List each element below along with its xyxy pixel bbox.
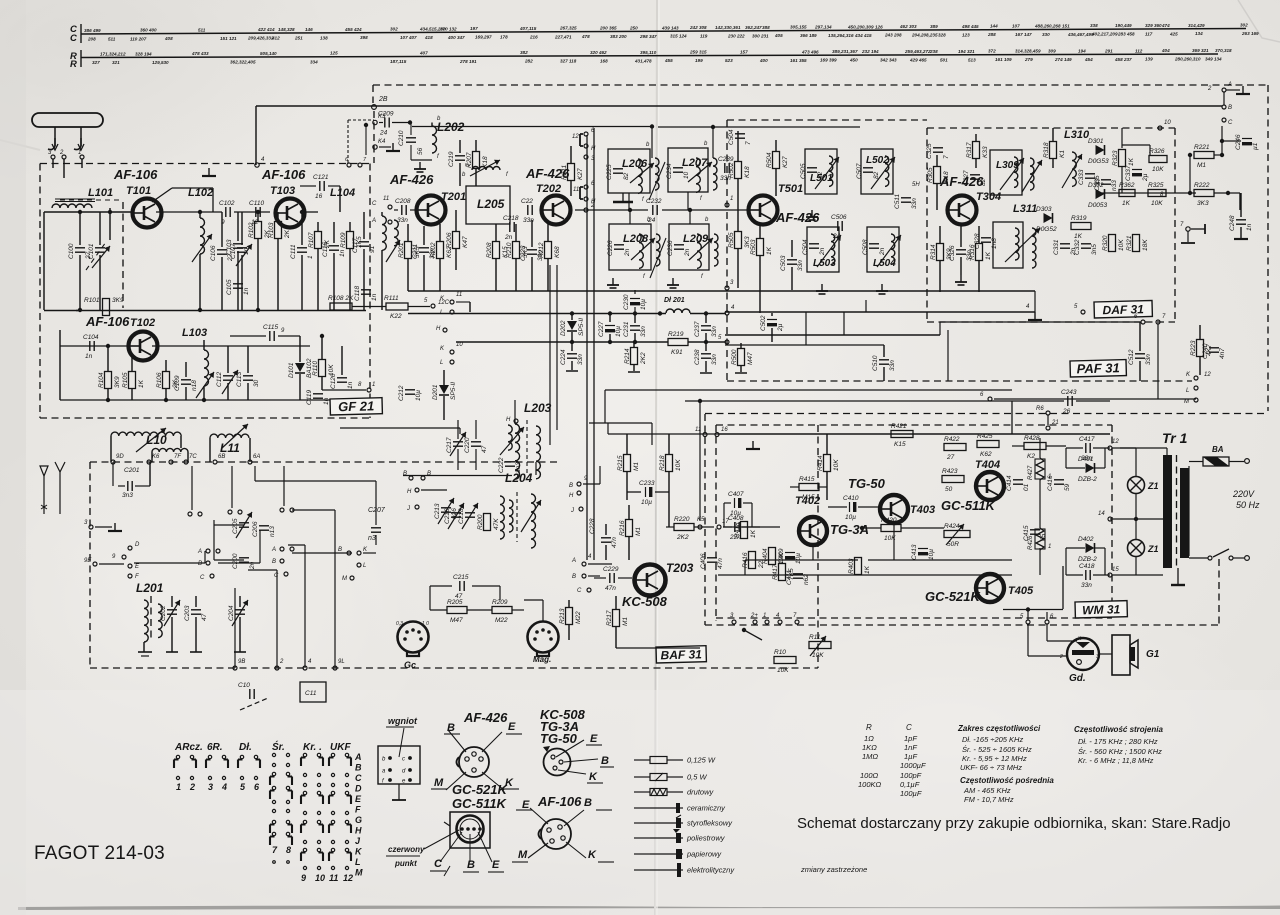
svg-text:Tr 1: Tr 1 bbox=[1162, 430, 1188, 446]
svg-text:C211: C211 bbox=[412, 244, 419, 259]
svg-text:R211: R211 bbox=[561, 165, 568, 180]
svg-text:TG-50: TG-50 bbox=[540, 731, 578, 746]
svg-text:R417: R417 bbox=[772, 564, 779, 580]
svg-text:1: 1 bbox=[307, 255, 314, 259]
svg-text:151 121: 151 121 bbox=[220, 36, 237, 41]
svg-text:362,247: 362,247 bbox=[745, 25, 762, 30]
svg-text:2: 2 bbox=[1207, 86, 1212, 92]
svg-text:n13: n13 bbox=[269, 526, 276, 537]
svg-text:L: L bbox=[1186, 388, 1189, 394]
svg-text:505,140: 505,140 bbox=[260, 51, 277, 56]
svg-text:SP5-II: SP5-II bbox=[450, 382, 457, 400]
svg-text:L309: L309 bbox=[996, 160, 1019, 171]
svg-text:B: B bbox=[584, 797, 592, 809]
svg-text:M1: M1 bbox=[1197, 162, 1206, 169]
svg-text:9E: 9E bbox=[84, 558, 92, 564]
svg-text:R415: R415 bbox=[799, 476, 815, 483]
svg-text:33n: 33n bbox=[397, 217, 408, 224]
svg-text:E: E bbox=[522, 799, 530, 811]
svg-text:6A: 6A bbox=[253, 454, 260, 460]
svg-text:7: 7 bbox=[465, 163, 472, 167]
svg-text:A: A bbox=[354, 752, 362, 762]
svg-text:C113: C113 bbox=[236, 372, 243, 387]
svg-text:R216: R216 bbox=[619, 520, 626, 536]
svg-text:9D: 9D bbox=[116, 454, 124, 460]
svg-text:1n8: 1n8 bbox=[991, 238, 998, 249]
svg-text:C: C bbox=[70, 33, 77, 44]
svg-text:1nF: 1nF bbox=[904, 743, 917, 752]
svg-text:259,463,272: 259,463,272 bbox=[904, 49, 931, 54]
svg-text:169,297: 169,297 bbox=[475, 35, 492, 40]
svg-text:C116: C116 bbox=[322, 242, 329, 257]
svg-text:C223: C223 bbox=[520, 245, 527, 261]
svg-text:1µF: 1µF bbox=[904, 752, 917, 761]
svg-text:Gd.: Gd. bbox=[1069, 673, 1086, 684]
svg-text:404: 404 bbox=[1161, 48, 1170, 53]
svg-text:H: H bbox=[591, 146, 596, 152]
svg-text:A: A bbox=[197, 549, 202, 555]
svg-text:82: 82 bbox=[873, 171, 880, 179]
svg-text:C239: C239 bbox=[718, 156, 734, 163]
svg-text:501: 501 bbox=[940, 57, 948, 62]
svg-text:161 109: 161 109 bbox=[995, 57, 1012, 62]
svg-text:C411: C411 bbox=[786, 570, 793, 585]
svg-text:R326: R326 bbox=[1149, 148, 1165, 155]
svg-text:R: R bbox=[866, 723, 872, 732]
svg-text:Śr. - 560 KHz ; 1500 KHz: Śr. - 560 KHz ; 1500 KHz bbox=[1078, 747, 1162, 756]
svg-text:320 462: 320 462 bbox=[590, 50, 607, 55]
svg-text:C504: C504 bbox=[728, 129, 735, 145]
svg-text:ceramiczny: ceramiczny bbox=[687, 804, 726, 813]
svg-text:AF-106: AF-106 bbox=[113, 167, 158, 182]
svg-text:10µ: 10µ bbox=[795, 553, 802, 564]
svg-text:12: 12 bbox=[251, 219, 259, 226]
svg-text:BA: BA bbox=[1212, 445, 1224, 454]
svg-text:10: 10 bbox=[456, 342, 463, 348]
svg-text:D0G53: D0G53 bbox=[1088, 158, 1109, 165]
svg-text:407: 407 bbox=[419, 50, 428, 55]
svg-text:T101: T101 bbox=[126, 185, 151, 197]
svg-text:C333: C333 bbox=[1078, 169, 1085, 185]
svg-text:511: 511 bbox=[108, 36, 116, 41]
svg-text:R212: R212 bbox=[538, 242, 545, 258]
svg-text:D401: D401 bbox=[1078, 456, 1094, 463]
svg-text:R205: R205 bbox=[447, 599, 463, 606]
svg-text:2+: 2+ bbox=[750, 613, 758, 619]
svg-text:C502: C502 bbox=[760, 315, 767, 331]
svg-text:R502: R502 bbox=[728, 162, 735, 178]
svg-text:D: D bbox=[135, 542, 140, 548]
svg-text:Częstotliwość strojenia: Częstotliwość strojenia bbox=[1074, 725, 1163, 734]
svg-text:B: B bbox=[572, 574, 576, 580]
svg-text:K: K bbox=[588, 849, 597, 861]
svg-text:T103: T103 bbox=[270, 185, 295, 197]
svg-text:T404: T404 bbox=[975, 459, 1000, 471]
svg-text:C208: C208 bbox=[395, 198, 411, 205]
svg-text:L: L bbox=[363, 563, 366, 569]
svg-text:R221: R221 bbox=[1194, 144, 1210, 151]
svg-text:UKF- 66 ÷ 73 MHz: UKF- 66 ÷ 73 MHz bbox=[960, 763, 1022, 772]
svg-text:478 433: 478 433 bbox=[191, 51, 209, 56]
svg-text:L101: L101 bbox=[88, 187, 113, 199]
svg-text:450,200,309: 450,200,309 bbox=[847, 24, 874, 29]
svg-text:B: B bbox=[601, 755, 609, 767]
svg-text:65: 65 bbox=[1040, 533, 1047, 541]
svg-text:R103: R103 bbox=[268, 222, 275, 238]
svg-text:WM 31: WM 31 bbox=[1082, 602, 1121, 617]
svg-text:C102: C102 bbox=[219, 200, 235, 207]
svg-text:10K: 10K bbox=[1152, 166, 1164, 173]
svg-text:K6: K6 bbox=[152, 454, 160, 460]
svg-text:33n: 33n bbox=[711, 326, 718, 337]
svg-text:7: 7 bbox=[943, 155, 950, 159]
svg-text:12: 12 bbox=[1112, 439, 1119, 445]
svg-text:H: H bbox=[355, 826, 362, 836]
svg-text:C215: C215 bbox=[453, 574, 469, 581]
svg-text:199: 199 bbox=[695, 58, 703, 63]
svg-text:329 360: 329 360 bbox=[1145, 23, 1162, 28]
svg-text:15: 15 bbox=[1112, 567, 1119, 573]
svg-text:26: 26 bbox=[1062, 408, 1071, 415]
svg-text:K18: K18 bbox=[943, 171, 950, 183]
svg-text:B: B bbox=[467, 859, 475, 871]
svg-text:10: 10 bbox=[315, 873, 325, 883]
svg-text:C110: C110 bbox=[249, 200, 264, 207]
svg-text:243 208: 243 208 bbox=[884, 33, 902, 38]
svg-text:C417: C417 bbox=[1079, 436, 1095, 443]
svg-text:1000µF: 1000µF bbox=[900, 761, 926, 770]
svg-text:G: G bbox=[355, 815, 362, 825]
svg-text:F: F bbox=[355, 805, 361, 815]
svg-text:H: H bbox=[407, 489, 412, 495]
svg-text:R319: R319 bbox=[1071, 215, 1087, 222]
svg-text:338: 338 bbox=[1090, 23, 1098, 28]
svg-text:C224: C224 bbox=[560, 349, 567, 365]
svg-text:408: 408 bbox=[164, 36, 173, 41]
svg-text:Dł.: Dł. bbox=[239, 742, 252, 753]
svg-text:2: 2 bbox=[279, 659, 284, 665]
svg-text:2: 2 bbox=[590, 203, 595, 209]
svg-text:R214: R214 bbox=[624, 348, 631, 364]
svg-text:135,264,316: 135,264,316 bbox=[828, 33, 854, 38]
svg-text:478: 478 bbox=[581, 34, 590, 39]
svg-text:C121: C121 bbox=[313, 174, 329, 181]
svg-text:C508: C508 bbox=[862, 239, 869, 255]
svg-text:1K: 1K bbox=[1128, 157, 1135, 166]
svg-text:10: 10 bbox=[1164, 120, 1171, 126]
svg-text:GF 21: GF 21 bbox=[338, 398, 375, 414]
svg-text:T501: T501 bbox=[778, 183, 803, 195]
svg-text:B: B bbox=[338, 547, 342, 553]
svg-text:R424: R424 bbox=[944, 523, 960, 530]
svg-text:R209: R209 bbox=[492, 599, 508, 606]
svg-text:513: 513 bbox=[968, 57, 976, 62]
svg-text:D101: D101 bbox=[288, 362, 295, 378]
svg-text:474: 474 bbox=[1161, 23, 1170, 28]
svg-text:Śr.: Śr. bbox=[272, 740, 285, 753]
svg-text:7F: 7F bbox=[174, 454, 181, 460]
svg-text:412: 412 bbox=[271, 36, 280, 41]
svg-text:L310: L310 bbox=[1064, 129, 1090, 141]
svg-text:1K: 1K bbox=[766, 246, 773, 255]
svg-text:1pF: 1pF bbox=[904, 734, 917, 743]
svg-text:302: 302 bbox=[1240, 23, 1248, 28]
svg-text:33n: 33n bbox=[889, 360, 896, 371]
svg-text:zmiany zastrzeżone: zmiany zastrzeżone bbox=[800, 865, 867, 874]
svg-text:R6: R6 bbox=[1036, 406, 1044, 412]
svg-text:BAF 31: BAF 31 bbox=[660, 647, 702, 662]
svg-text:425: 425 bbox=[1169, 31, 1178, 36]
svg-text:B: B bbox=[355, 763, 362, 773]
svg-text:R208: R208 bbox=[486, 242, 493, 258]
svg-text:267,325: 267,325 bbox=[559, 26, 577, 31]
svg-text:AF-106: AF-106 bbox=[537, 794, 582, 809]
svg-text:AM - 465 KHz: AM - 465 KHz bbox=[963, 786, 1011, 795]
svg-text:K15: K15 bbox=[894, 441, 906, 448]
svg-text:R: R bbox=[70, 59, 77, 70]
svg-text:10µ: 10µ bbox=[415, 390, 422, 401]
svg-text:L503: L503 bbox=[813, 258, 836, 269]
svg-text:Kr. .: Kr. . bbox=[303, 742, 322, 753]
svg-text:C408: C408 bbox=[728, 515, 744, 522]
svg-text:91: 91 bbox=[369, 245, 376, 253]
svg-text:C233: C233 bbox=[639, 480, 655, 487]
svg-text:T102: T102 bbox=[130, 317, 155, 329]
svg-text:R425: R425 bbox=[977, 433, 993, 440]
svg-text:R325: R325 bbox=[1148, 182, 1164, 189]
svg-text:R210: R210 bbox=[506, 242, 513, 258]
svg-text:C209: C209 bbox=[378, 111, 394, 118]
svg-text:2µ: 2µ bbox=[1142, 173, 1149, 182]
svg-text:400 347: 400 347 bbox=[447, 35, 465, 40]
svg-text:157: 157 bbox=[740, 49, 748, 54]
svg-text:10: 10 bbox=[683, 171, 690, 179]
svg-text:11: 11 bbox=[695, 427, 701, 433]
svg-text:F: F bbox=[135, 574, 139, 580]
svg-text:R110: R110 bbox=[312, 361, 319, 376]
svg-text:370,318: 370,318 bbox=[1215, 48, 1232, 53]
svg-text:C503: C503 bbox=[780, 255, 787, 271]
svg-text:10µ: 10µ bbox=[928, 549, 935, 560]
svg-text:129,530: 129,530 bbox=[152, 60, 169, 65]
svg-text:L502: L502 bbox=[866, 155, 889, 166]
svg-text:C410: C410 bbox=[843, 495, 859, 502]
svg-text:R218: R218 bbox=[659, 455, 666, 471]
svg-text:H: H bbox=[569, 493, 574, 499]
svg-text:0,1µF: 0,1µF bbox=[900, 780, 920, 789]
svg-text:C248: C248 bbox=[1229, 215, 1236, 231]
svg-text:R10: R10 bbox=[774, 649, 786, 656]
svg-text:AF-106: AF-106 bbox=[261, 167, 306, 182]
svg-text:1K: 1K bbox=[138, 379, 145, 388]
svg-text:3: 3 bbox=[1096, 654, 1099, 660]
svg-text:100pF: 100pF bbox=[900, 771, 922, 780]
svg-text:FAGOT 214-03: FAGOT 214-03 bbox=[34, 843, 165, 864]
svg-text:2: 2 bbox=[189, 782, 195, 792]
svg-text:B: B bbox=[272, 559, 276, 565]
svg-text:K22: K22 bbox=[390, 313, 402, 320]
svg-text:2n: 2n bbox=[624, 248, 631, 257]
svg-text:C406: C406 bbox=[700, 553, 707, 569]
svg-text:C240: C240 bbox=[1202, 343, 1209, 359]
svg-text:1K: 1K bbox=[985, 251, 992, 260]
svg-text:K47: K47 bbox=[462, 236, 469, 248]
svg-text:C418: C418 bbox=[1079, 563, 1095, 570]
svg-text:418: 418 bbox=[424, 35, 433, 40]
svg-text:K: K bbox=[589, 771, 598, 783]
svg-text:M1: M1 bbox=[635, 527, 642, 536]
svg-text:K4: K4 bbox=[378, 139, 386, 145]
svg-text:L: L bbox=[355, 857, 361, 867]
svg-text:123: 123 bbox=[962, 32, 970, 37]
svg-text:12: 12 bbox=[1204, 372, 1211, 378]
svg-text:402,217,209: 402,217,209 bbox=[1091, 32, 1118, 37]
svg-text:1: 1 bbox=[78, 150, 81, 156]
svg-text:GC-511K: GC-511K bbox=[452, 796, 508, 811]
svg-text:4n7: 4n7 bbox=[1219, 348, 1226, 359]
svg-text:R202: R202 bbox=[430, 242, 437, 258]
svg-text:K1: K1 bbox=[1059, 150, 1066, 158]
svg-text:R320: R320 bbox=[1102, 235, 1109, 251]
svg-text:278 191: 278 191 bbox=[459, 59, 477, 64]
svg-text:C217: C217 bbox=[446, 437, 453, 453]
svg-text:C327: C327 bbox=[963, 170, 970, 186]
svg-text:R213: R213 bbox=[559, 608, 566, 624]
svg-text:126: 126 bbox=[875, 24, 883, 29]
svg-text:Mag.: Mag. bbox=[533, 655, 551, 664]
svg-text:1Ω: 1Ω bbox=[864, 734, 874, 743]
svg-text:330: 330 bbox=[1042, 32, 1050, 37]
svg-text:6B: 6B bbox=[218, 454, 225, 460]
svg-text:450: 450 bbox=[849, 58, 858, 63]
svg-text:DZB-2: DZB-2 bbox=[1078, 476, 1097, 483]
svg-text:148,328: 148,328 bbox=[278, 27, 295, 32]
svg-text:2B: 2B bbox=[378, 96, 388, 103]
svg-text:50: 50 bbox=[945, 486, 953, 493]
svg-text:R219: R219 bbox=[668, 331, 684, 338]
svg-text:33n: 33n bbox=[911, 198, 918, 209]
svg-text:R200: R200 bbox=[477, 514, 484, 530]
svg-text:L311: L311 bbox=[1013, 203, 1037, 215]
svg-text:C101: C101 bbox=[88, 243, 95, 259]
svg-text:C326: C326 bbox=[949, 245, 956, 261]
svg-text:10K: 10K bbox=[812, 652, 824, 659]
svg-text:349 134: 349 134 bbox=[1205, 57, 1222, 62]
svg-text:107 407: 107 407 bbox=[400, 35, 417, 40]
svg-text:112: 112 bbox=[1135, 48, 1143, 53]
svg-text:434 415: 434 415 bbox=[854, 33, 872, 38]
svg-text:R106: R106 bbox=[156, 372, 163, 388]
svg-text:C105: C105 bbox=[226, 279, 233, 295]
svg-text:M22: M22 bbox=[575, 611, 582, 624]
svg-text:171,324,212: 171,324,212 bbox=[100, 51, 126, 56]
svg-text:R422: R422 bbox=[944, 436, 960, 443]
svg-text:D202: D202 bbox=[560, 320, 567, 336]
svg-text:D201: D201 bbox=[432, 384, 439, 400]
svg-text:1KΩ: 1KΩ bbox=[862, 743, 877, 752]
svg-text:C118: C118 bbox=[354, 286, 361, 301]
svg-text:194 321: 194 321 bbox=[958, 49, 975, 54]
svg-text:C: C bbox=[200, 575, 205, 581]
svg-text:L504: L504 bbox=[873, 258, 896, 269]
svg-text:M: M bbox=[518, 849, 528, 861]
svg-text:A: A bbox=[1227, 82, 1232, 88]
svg-text:30: 30 bbox=[253, 379, 260, 387]
svg-text:315 124: 315 124 bbox=[670, 34, 687, 39]
svg-text:3: 3 bbox=[208, 782, 213, 792]
svg-text:197: 197 bbox=[470, 26, 478, 31]
svg-text:1K: 1K bbox=[1122, 200, 1131, 207]
svg-text:327 118: 327 118 bbox=[560, 59, 577, 64]
svg-text:342 343: 342 343 bbox=[880, 58, 897, 63]
svg-text:Kr. - 6 MHz ; 11,8 MHz: Kr. - 6 MHz ; 11,8 MHz bbox=[1078, 756, 1154, 765]
svg-text:10µ: 10µ bbox=[845, 514, 856, 521]
svg-text:33n: 33n bbox=[1145, 354, 1152, 365]
svg-text:125: 125 bbox=[330, 51, 338, 56]
svg-text:2n: 2n bbox=[504, 234, 513, 241]
svg-text:L: L bbox=[440, 310, 443, 316]
svg-text:C: C bbox=[906, 723, 912, 732]
svg-text:C237: C237 bbox=[694, 321, 701, 337]
svg-text:Schemat dostarczany przy zakup: Schemat dostarczany przy zakupie odbiorn… bbox=[797, 815, 1231, 832]
svg-text:200 365: 200 365 bbox=[599, 26, 617, 31]
svg-text:poliestrowy: poliestrowy bbox=[686, 834, 726, 843]
svg-text:C106: C106 bbox=[210, 245, 217, 261]
svg-text:2K2: 2K2 bbox=[676, 534, 689, 541]
svg-text:C: C bbox=[372, 201, 377, 207]
svg-text:Z1: Z1 bbox=[1147, 544, 1159, 554]
svg-text:n33: n33 bbox=[1111, 180, 1118, 191]
svg-text:C104: C104 bbox=[83, 334, 99, 341]
svg-text:33n: 33n bbox=[797, 260, 804, 271]
svg-text:K27: K27 bbox=[782, 156, 789, 168]
svg-text:14: 14 bbox=[1098, 511, 1105, 517]
svg-text:C337: C337 bbox=[1125, 165, 1132, 181]
svg-text:H: H bbox=[436, 326, 441, 332]
svg-text:E: E bbox=[590, 733, 598, 745]
svg-text:C: C bbox=[577, 588, 582, 594]
svg-text:C10: C10 bbox=[238, 682, 250, 689]
svg-text:GC-521K: GC-521K bbox=[452, 782, 509, 797]
svg-text:1n: 1n bbox=[323, 397, 330, 405]
svg-text:C202: C202 bbox=[160, 605, 167, 621]
svg-text:C505: C505 bbox=[800, 163, 807, 179]
svg-text:107: 107 bbox=[1012, 24, 1020, 29]
svg-text:9: 9 bbox=[301, 873, 306, 883]
svg-text:12: 12 bbox=[343, 873, 353, 883]
svg-text:punkt: punkt bbox=[394, 859, 417, 868]
svg-text:L204: L204 bbox=[505, 471, 533, 485]
svg-text:AF-106: AF-106 bbox=[85, 314, 130, 329]
svg-text:400: 400 bbox=[759, 58, 768, 63]
svg-text:5H: 5H bbox=[912, 182, 920, 188]
svg-text:24: 24 bbox=[832, 233, 841, 240]
svg-text:47n: 47n bbox=[605, 585, 616, 592]
svg-text:33n: 33n bbox=[1081, 582, 1092, 589]
svg-text:291: 291 bbox=[1104, 48, 1113, 53]
svg-text:56: 56 bbox=[417, 147, 424, 155]
svg-text:10K: 10K bbox=[778, 552, 785, 564]
svg-text:33n: 33n bbox=[711, 354, 718, 365]
svg-text:142,330,361: 142,330,361 bbox=[715, 25, 741, 30]
svg-text:21: 21 bbox=[1051, 420, 1059, 426]
svg-text:1: 1 bbox=[1048, 544, 1051, 550]
svg-text:33n: 33n bbox=[640, 326, 647, 337]
svg-text:C230: C230 bbox=[623, 294, 630, 310]
svg-text:AF-426: AF-426 bbox=[389, 172, 434, 187]
svg-text:M1: M1 bbox=[622, 617, 629, 626]
svg-text:E: E bbox=[508, 721, 516, 733]
